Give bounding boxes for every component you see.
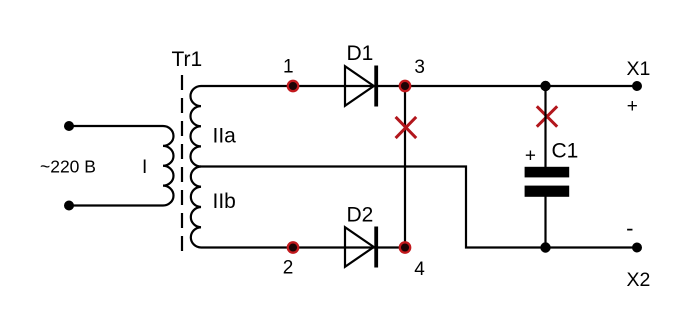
svg-text:C1: C1 [552, 140, 579, 163]
svg-text:4: 4 [414, 259, 425, 280]
svg-text:~220 В: ~220 В [40, 157, 96, 177]
svg-text:D2: D2 [347, 204, 374, 227]
svg-text:IIa: IIa [213, 125, 237, 148]
svg-text:IIb: IIb [213, 190, 236, 213]
capacitor C1 plate positive [525, 167, 570, 178]
diode D2 [345, 227, 378, 268]
junction top capacitor [540, 81, 550, 91]
svg-text:+: + [525, 146, 536, 167]
node 1 [288, 81, 298, 91]
svg-text:X1: X1 [627, 58, 651, 80]
svg-text:1: 1 [283, 57, 294, 78]
transformer Tr1 secondary winding IIb [191, 167, 201, 248]
svg-text:-: - [626, 216, 633, 241]
terminal bottom-left input [64, 201, 74, 211]
wire primary bottom lead [69, 204, 163, 206]
svg-text:X2: X2 [627, 269, 651, 291]
svg-text:I: I [142, 157, 147, 178]
capacitor C1 plate negative [525, 186, 570, 197]
terminal X2 [632, 243, 642, 253]
wire capacitor bottom stem [544, 196, 546, 248]
transformer Tr1 secondary winding IIa [190, 86, 201, 167]
svg-text:Tr1: Tr1 [172, 48, 203, 71]
diode D1 [345, 66, 378, 107]
svg-text:D1: D1 [347, 42, 374, 65]
svg-text:+: + [627, 96, 638, 117]
node 2 [288, 242, 298, 252]
terminal X1 [632, 81, 642, 91]
terminal top-left input [64, 121, 74, 131]
junction bottom capacitor [540, 242, 550, 252]
node 3 [400, 81, 410, 91]
transformer core dashed line [181, 75, 183, 253]
wire bottom left rail [201, 246, 406, 248]
wire primary top lead [69, 125, 163, 127]
wire capacitor top stem [544, 86, 546, 168]
fault cross on cathode bus [396, 117, 417, 138]
node 4 [400, 242, 410, 252]
svg-text:2: 2 [283, 258, 294, 279]
svg-text:3: 3 [414, 57, 425, 78]
wire cathode bus node3 to node4 [404, 86, 406, 248]
fault cross on capacitor branch [537, 106, 557, 126]
transformer Tr1 primary winding I [163, 126, 174, 206]
wire top rail [201, 85, 637, 87]
wire center tap rail [201, 167, 637, 248]
